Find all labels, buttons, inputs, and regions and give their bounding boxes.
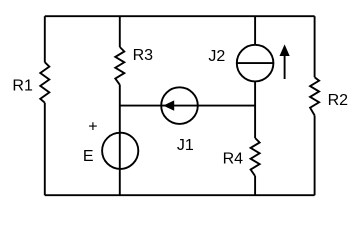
voltage source E (EMF circle, wire passes through)	[102, 133, 138, 169]
svg-text:R1: R1	[12, 78, 33, 95]
current source J1 (circle)	[161, 87, 198, 124]
wire middle-left branch (R3 down through E source to bottom wire)	[119, 85, 121, 195]
wire right upper (top-right corner down to R2)	[314, 16, 316, 77]
arrowhead of J1 (points left)	[163, 100, 174, 110]
wire left lower (R1 down to bottom-left corner)	[44, 103, 46, 196]
arrow of J2 (direction arrow pointing up, beside the circle)	[284, 54, 286, 79]
wire right-middle branch bottom (R4 down to bottom wire)	[254, 176, 256, 195]
wire right lower (R2 down to bottom-right corner)	[314, 115, 316, 195]
resistor R4	[251, 138, 260, 176]
svg-text:R4: R4	[223, 151, 244, 168]
svg-text:J2: J2	[208, 48, 225, 65]
wire right-middle branch top (top wire down to J2)	[254, 16, 256, 45]
svg-text:E: E	[83, 148, 94, 165]
wire left upper (top-left corner down to R1)	[44, 16, 46, 62]
resistor R3	[115, 47, 124, 85]
resistor R2	[310, 77, 319, 115]
svg-text:+: +	[88, 119, 97, 136]
wire bottom (node 0: bottom-left corner to bottom-right corner)	[45, 194, 315, 196]
svg-text:R2: R2	[328, 92, 349, 109]
resistor R1	[40, 62, 49, 102]
svg-text:R3: R3	[133, 47, 154, 64]
wire middle horizontal (node 2: from left branch to right branch, through J1)	[120, 105, 255, 107]
wire right-middle branch (J2 bottom down to junction with middle wire)	[254, 81, 256, 138]
wire middle-left branch top (top wire down to R3)	[119, 16, 121, 47]
wire top (node 1: from top-left corner to top-right corner)	[45, 15, 315, 17]
current source J2 (circle with horizontal bar)	[237, 45, 274, 82]
svg-text:J1: J1	[177, 137, 194, 154]
